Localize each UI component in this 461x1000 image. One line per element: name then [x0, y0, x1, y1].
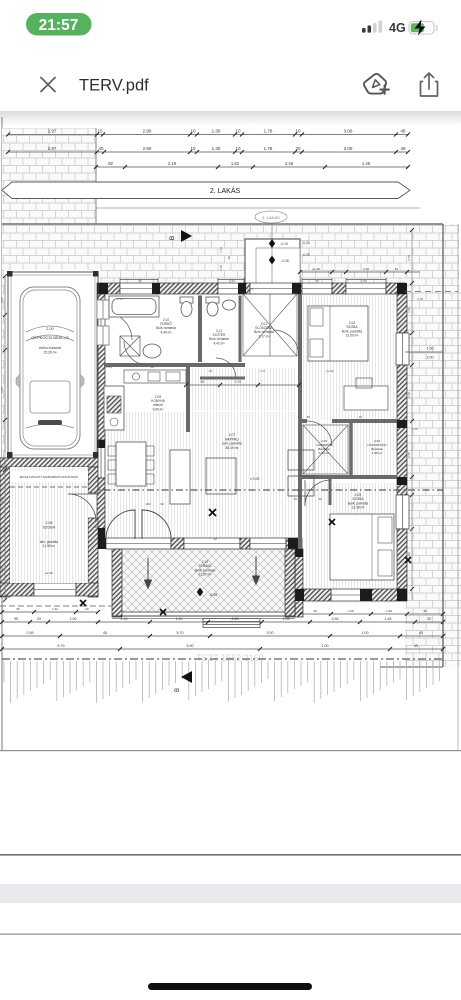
- svg-text:10: 10: [190, 146, 196, 151]
- separator line 934: [0, 934, 461, 935]
- svg-text:15: 15: [97, 129, 103, 134]
- window top W2: [218, 283, 244, 294]
- svg-text:95: 95: [16, 607, 20, 611]
- svg-text:1.60: 1.60: [0, 387, 4, 393]
- svg-text:3.00: 3.00: [344, 146, 353, 151]
- svg-text:± 0,00: ± 0,00: [250, 477, 260, 481]
- svg-text:1.62: 1.62: [231, 161, 240, 166]
- svg-text:1.10: 1.10: [0, 567, 4, 573]
- toilet: [180, 297, 193, 317]
- svg-text:1.00: 1.00: [362, 631, 369, 635]
- room206 right wall top: [88, 467, 98, 493]
- svg-text:2.00: 2.00: [46, 327, 53, 331]
- svg-text:0.25: 0.25: [303, 241, 310, 245]
- brick paving below-left of garage: [2, 224, 98, 272]
- partition at room205 door: [329, 477, 332, 505]
- house top wall seg5: [332, 283, 346, 294]
- svg-text:B: B: [175, 688, 181, 692]
- house top wall seg1: [97, 283, 120, 294]
- svg-text:5.79: 5.79: [58, 644, 65, 648]
- window bottom of living W6: [250, 538, 286, 549]
- floor stripes gardrob row: [302, 423, 396, 475]
- house right wall seg2: [397, 365, 407, 495]
- svg-text:3.00: 3.00: [344, 129, 353, 134]
- separator line 855: [0, 854, 461, 856]
- svg-text:10: 10: [190, 129, 196, 134]
- svg-text:1.10: 1.10: [219, 247, 223, 253]
- svg-text:1.50: 1.50: [427, 347, 434, 351]
- svg-text:2. LAKÁS: 2. LAKÁS: [210, 186, 241, 195]
- close X button: [41, 78, 55, 92]
- svg-text:pe 90: pe 90: [312, 267, 320, 271]
- door arc garage on left wall: [104, 312, 132, 340]
- floor stripes hall: [192, 368, 296, 410]
- bathtub: [109, 296, 159, 317]
- svg-text:10: 10: [295, 129, 301, 134]
- car top view: [16, 287, 84, 449]
- bed room202: [308, 306, 368, 361]
- dashes below room206: [0, 605, 112, 607]
- room206 parquet floor: [10, 467, 88, 583]
- partition below gardrob: [300, 475, 397, 479]
- dining table: [108, 442, 154, 486]
- pdf page left edge: [1, 117, 3, 750]
- site boundary right line: [442, 224, 444, 667]
- floor stripes living: [106, 412, 296, 543]
- svg-text:TSZT 1552 2160: TSZT 1552 2160: [196, 653, 263, 663]
- svg-text:4,42 m²: 4,42 m²: [214, 341, 225, 345]
- floor stripes room205: [304, 483, 396, 603]
- svg-text:45: 45: [103, 631, 107, 635]
- svg-text:9,17 m²: 9,17 m²: [259, 334, 270, 338]
- svg-text:2.65: 2.65: [106, 365, 112, 369]
- marker bowtie near window: [209, 509, 216, 516]
- svg-text:30: 30: [423, 609, 427, 613]
- svg-text:12,00 m²: 12,00 m²: [345, 334, 359, 338]
- house right wall seg3: [397, 529, 407, 589]
- svg-text:.60: .60: [150, 365, 154, 369]
- share icon: [421, 73, 438, 96]
- sill boxes on left house wall: [97, 300, 109, 345]
- door arc room206: [68, 494, 96, 522]
- svg-text:2.78: 2.78: [417, 297, 423, 301]
- section line A-A dashed: [2, 489, 443, 491]
- svg-text:45: 45: [400, 129, 406, 134]
- svg-text:-0,08: -0,08: [281, 259, 289, 263]
- svg-text:90: 90: [313, 609, 317, 613]
- bathroom sink: [143, 344, 161, 358]
- shower: [120, 336, 140, 356]
- door arc room203: [307, 421, 332, 446]
- wardrobe with X: [243, 294, 297, 356]
- window top W1: [120, 283, 158, 294]
- svg-text:GÉPKOCSI BEÁLLÓ: GÉPKOCSI BEÁLLÓ: [31, 335, 69, 340]
- window top W3: [302, 283, 332, 294]
- svg-text:3.65: 3.65: [0, 497, 4, 503]
- dimension line y=134.5: [6, 129, 410, 137]
- house interior background: [97, 283, 407, 601]
- svg-text:-0,05: -0,05: [209, 593, 217, 597]
- svg-text:1.42: 1.42: [52, 607, 58, 611]
- svg-text:.80: .80: [306, 415, 310, 419]
- terrace right wall: [295, 549, 303, 617]
- svg-text:21,87 m²: 21,87 m²: [198, 573, 212, 577]
- svg-text:2.78: 2.78: [407, 255, 411, 261]
- svg-text:2.00: 2.00: [427, 356, 434, 360]
- partition gardrob/kamra: [349, 421, 353, 477]
- svg-text:2.55: 2.55: [407, 452, 411, 458]
- svg-text:.90: .90: [318, 497, 322, 501]
- terrace left wall: [112, 549, 122, 617]
- dimension line y=167: [94, 161, 410, 169]
- svg-text:40: 40: [98, 146, 104, 151]
- partition right wing corridor: [298, 421, 302, 549]
- svg-text:1.01: 1.01: [247, 287, 253, 291]
- svg-text:1.45: 1.45: [386, 609, 392, 613]
- svg-text:.51: .51: [394, 267, 399, 271]
- svg-text:1.45: 1.45: [385, 617, 392, 621]
- svg-text:2.96: 2.96: [0, 297, 4, 303]
- left column divider: [95, 128, 97, 224]
- battery icon: [409, 20, 437, 36]
- terrace right wall: [285, 549, 295, 617]
- svg-text:2.06: 2.06: [46, 521, 53, 525]
- partition below room202 b: [332, 419, 397, 423]
- kitchen counter left: [104, 386, 124, 430]
- svg-text:5,69 m²: 5,69 m²: [153, 407, 164, 411]
- svg-text:3.00: 3.00: [267, 631, 274, 635]
- brick strip left of garage: [2, 272, 8, 458]
- marker cross at 83,603: [80, 600, 86, 606]
- svg-text:95: 95: [14, 617, 18, 621]
- svg-text:1.00: 1.00: [322, 644, 329, 648]
- svg-text:90: 90: [160, 502, 164, 506]
- partition below room202 a: [300, 419, 307, 423]
- gray band: [0, 884, 461, 903]
- svg-text:pe 90: pe 90: [326, 369, 334, 373]
- sprinkled small dimension labels: [94, 279, 423, 541]
- svg-text:4G: 4G: [389, 21, 406, 35]
- dimension line y=649: [0, 644, 445, 651]
- svg-text:1.05: 1.05: [348, 609, 354, 613]
- garage door left wall: [97, 309, 105, 343]
- wc toilet: [206, 297, 219, 316]
- text band above room206: [10, 471, 88, 482]
- terrace double door sill: [106, 538, 171, 549]
- dimension line y=152: [6, 146, 410, 154]
- window room206: [34, 583, 76, 596]
- svg-text:1.30: 1.30: [212, 146, 221, 151]
- double door arcs: [106, 510, 171, 539]
- bottom wall seg1: [171, 538, 184, 549]
- terrace arrows: [145, 556, 260, 588]
- brick paving top band: [2, 224, 459, 290]
- partition bath/eloter: [198, 296, 202, 363]
- porch level labels: [280, 241, 310, 263]
- section marker diamond: [269, 239, 275, 248]
- svg-text:2.97: 2.97: [48, 129, 57, 134]
- garage interior background: [4, 270, 100, 470]
- partition hall/room202: [298, 294, 302, 421]
- svg-text:.90: .90: [200, 380, 205, 384]
- section marker diamond: [269, 256, 275, 265]
- sill ticks above top windows: [120, 278, 386, 283]
- svg-text:30: 30: [427, 617, 431, 621]
- terrace steps: [203, 619, 260, 628]
- dimension line y=614: [298, 609, 445, 616]
- svg-text:15,28 m²: 15,28 m²: [43, 350, 57, 354]
- svg-text:.90: .90: [227, 256, 231, 261]
- svg-text:pe 90: pe 90: [45, 571, 53, 575]
- svg-text:SZOBA: SZOBA: [43, 526, 56, 530]
- svg-text:2.90: 2.90: [143, 129, 152, 134]
- dimension line y=622: [0, 617, 445, 624]
- room206 right wall bottom: [88, 518, 98, 597]
- signal bars: [362, 21, 382, 33]
- sofa set: [170, 450, 314, 504]
- window right wall 2: [396, 495, 409, 529]
- marker cross at 163,612: [160, 609, 166, 615]
- site boundary top line: [2, 223, 443, 225]
- svg-text:.90: .90: [208, 369, 212, 373]
- svg-text:45: 45: [414, 644, 418, 648]
- svg-text:4.10: 4.10: [219, 265, 223, 271]
- svg-text:10: 10: [235, 146, 241, 151]
- dimension line y=612: [0, 607, 100, 614]
- separator line 751: [0, 750, 461, 751]
- svg-text:6.25: 6.25: [303, 253, 310, 257]
- overall band 2. LAKAS: [2, 182, 410, 199]
- svg-text:1. LAKÁS: 1. LAKÁS: [262, 215, 280, 220]
- svg-text:1.90: 1.90: [70, 617, 77, 621]
- svg-text:.90: .90: [213, 537, 217, 541]
- dimension line y=636: [0, 631, 445, 638]
- room206 bottom wall seg2: [76, 583, 98, 596]
- house top wall seg3: [244, 283, 250, 294]
- door arc room205: [305, 480, 331, 506]
- entrance porch: [245, 224, 300, 284]
- kitchen counter top row: [124, 370, 186, 383]
- dimension line y=385: [184, 380, 301, 387]
- svg-text:11,98 m²: 11,98 m²: [43, 544, 55, 548]
- svg-text:-0,15: -0,15: [280, 242, 288, 246]
- svg-text:1.50: 1.50: [407, 307, 411, 313]
- svg-text:20: 20: [295, 146, 301, 151]
- room206 top wall: [0, 458, 98, 467]
- svg-text:3.90: 3.90: [332, 617, 339, 621]
- house left wall seg1: [97, 294, 105, 309]
- svg-text:1.05: 1.05: [283, 617, 290, 621]
- window bottom of living W5: [184, 538, 240, 549]
- section marker diamond: [197, 588, 203, 597]
- svg-text:1.48: 1.48: [363, 267, 369, 271]
- svg-text:13,38 m²: 13,38 m²: [351, 506, 365, 510]
- brick paving left column: [2, 128, 96, 224]
- svg-text:.90: .90: [238, 537, 242, 541]
- svg-text:4,92 m²: 4,92 m²: [319, 451, 330, 455]
- garage structure: [8, 272, 98, 458]
- bottom wall right seg2: [371, 589, 407, 601]
- svg-text:2.48: 2.48: [285, 161, 294, 166]
- partition horizontal y365: [104, 363, 245, 367]
- wall kitchen/living: [186, 365, 190, 432]
- door arc bath: [124, 341, 148, 365]
- house right wall seg1: [397, 294, 407, 333]
- svg-text:1,98 m²: 1,98 m²: [372, 451, 383, 455]
- marker cross at 408,560: [405, 557, 411, 563]
- svg-text:1.00: 1.00: [412, 427, 418, 431]
- vertical dim chain right of house: [410, 228, 414, 600]
- svg-text:2.95: 2.95: [27, 631, 34, 635]
- door arc wc: [216, 358, 236, 378]
- svg-text:1.78: 1.78: [264, 146, 273, 151]
- svg-text:20: 20: [37, 617, 41, 621]
- svg-text:1.40: 1.40: [176, 617, 183, 621]
- svg-text:45: 45: [400, 146, 406, 151]
- svg-text:.90: .90: [358, 415, 362, 419]
- gardrob cabinet: [303, 425, 348, 474]
- bottom wall seg3: [286, 538, 302, 549]
- dimension line y=272: [298, 267, 420, 274]
- toolbar bottom shadow: [0, 111, 461, 112]
- svg-text:4,40 m²: 4,40 m²: [161, 330, 172, 334]
- brick paving right strip: [405, 290, 461, 667]
- svg-text:10: 10: [235, 129, 241, 134]
- svg-text:.92: .92: [107, 161, 113, 166]
- desk room202: [344, 378, 388, 410]
- svg-text:1.78: 1.78: [264, 129, 273, 134]
- entrance door top: [250, 283, 295, 294]
- svg-text:1.70: 1.70: [235, 380, 241, 384]
- 1. LAKAS oval callout: [255, 211, 287, 223]
- svg-text:B: B: [169, 236, 176, 240]
- svg-text:5.70: 5.70: [177, 631, 184, 635]
- room206 left wall: [0, 458, 10, 597]
- right dashed line at top wall level: [405, 291, 458, 293]
- floor stripes room202: [302, 295, 396, 420]
- window right wall 1: [396, 333, 409, 365]
- svg-text:21:57: 21:57: [39, 17, 79, 34]
- vertical dim labels near porch left: [219, 247, 231, 271]
- annotate icon: [364, 74, 389, 94]
- left vertical dim line: [4, 276, 6, 452]
- svg-text:1.70: 1.70: [259, 369, 265, 373]
- terrace floor lattice: [122, 549, 285, 612]
- svg-text:TERV.pdf: TERV.pdf: [79, 77, 149, 95]
- svg-text:2.60: 2.60: [407, 392, 411, 398]
- structural piers: [97, 283, 407, 617]
- partition below wc: [200, 377, 245, 380]
- svg-text:1.30: 1.30: [212, 129, 221, 134]
- svg-text:1.45: 1.45: [362, 161, 371, 166]
- section marker B top: [169, 230, 192, 242]
- house left wall seg3: [97, 478, 105, 538]
- svg-text:36,19 m²: 36,19 m²: [225, 446, 239, 450]
- home indicator: [148, 983, 312, 990]
- wc washbasin: [223, 300, 236, 310]
- svg-text:2.19: 2.19: [168, 161, 177, 166]
- ground boundary dash-dot: [2, 658, 443, 660]
- partition eloter/eloszoba: [239, 296, 242, 363]
- svg-text:2.97: 2.97: [48, 146, 57, 151]
- right side dim 1.50/2.00: [405, 347, 443, 360]
- svg-text:1.10: 1.10: [121, 617, 128, 621]
- window left wall: [97, 440, 105, 478]
- svg-text:2.78: 2.78: [117, 297, 123, 301]
- vertical dim chain left page edge: [3, 274, 7, 602]
- bottom wall right seg: [303, 589, 331, 601]
- house left wall seg2: [97, 343, 105, 440]
- marker cross at 332,522: [329, 519, 335, 525]
- svg-text:20: 20: [85, 607, 89, 611]
- house top wall seg6: [386, 283, 405, 294]
- terrace bottom edge: [112, 615, 295, 617]
- svg-text:.75: .75: [94, 513, 98, 517]
- svg-text:2.90: 2.90: [143, 146, 152, 151]
- svg-text:90: 90: [94, 525, 98, 529]
- svg-text:2.40: 2.40: [232, 617, 239, 621]
- door arc room202 from hall: [273, 330, 299, 356]
- car rear dark bar: [38, 420, 62, 425]
- bottom wall seg2: [240, 538, 250, 549]
- svg-text:160: 160: [145, 502, 150, 506]
- pdf page right edge: [457, 224, 459, 750]
- house top wall seg4: [295, 283, 302, 294]
- svg-text:45: 45: [419, 631, 423, 635]
- section marker B bottom: [175, 671, 192, 692]
- garage corner posts: [7, 271, 99, 458]
- ground hatch fringe: [4, 661, 440, 703]
- svg-text:5.90: 5.90: [187, 644, 194, 648]
- status bar time pill: [26, 13, 92, 36]
- window top W4: [346, 283, 386, 294]
- bed room205: [330, 514, 394, 580]
- window bottom right room: [331, 589, 371, 601]
- house top wall seg2: [158, 283, 218, 294]
- room206 bottom wall seg1: [0, 583, 34, 596]
- svg-text:.05: .05: [293, 497, 297, 501]
